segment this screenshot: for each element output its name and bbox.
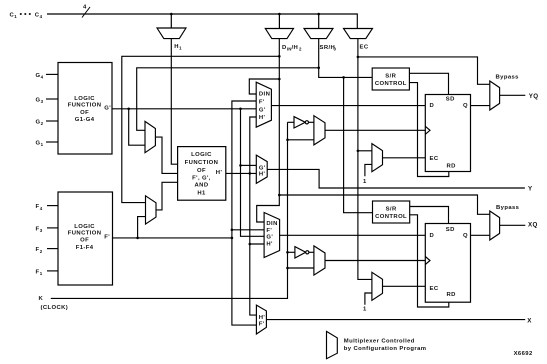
- svg-text:X6692: X6692: [514, 351, 533, 357]
- label H1: [174, 44, 182, 51]
- mux clock FF-X: [314, 246, 325, 275]
- wire K clock vertical and branches: [51, 122, 288, 298]
- svg-text:FUNCTION: FUNCTION: [185, 160, 219, 166]
- mux EC (input select): [344, 29, 373, 39]
- logic function box F' G' H1: [178, 147, 226, 201]
- wire G' output line to mux column: [112, 108, 256, 110]
- clock chevron FF-X: [425, 257, 430, 265]
- wire H2 branch (DIN/H2 line to upper H-input mux): [122, 56, 279, 202]
- wire Y output with jog: [267, 169, 525, 188]
- mux2 D-input select DIN F' G' H': [264, 213, 280, 258]
- svg-text:H': H': [259, 171, 266, 177]
- wire RD-2 from S/R control to FF-X: [410, 215, 449, 307]
- svg-text:H': H': [266, 241, 273, 247]
- wire F' output line to F bus: [113, 237, 232, 239]
- wire bypass-2 (DIN tap to bypass mux XQ): [279, 195, 490, 214]
- mux-X output select H'/F': [256, 305, 266, 334]
- inverter clock FF-Y: [294, 117, 314, 128]
- wire F' branch to mux-X: [232, 238, 257, 325]
- svg-text:K: K: [39, 296, 44, 302]
- svg-text:3: 3: [41, 99, 44, 104]
- svg-text:EC: EC: [430, 156, 439, 162]
- junction dot SR branch: [342, 76, 345, 79]
- pin G3: [36, 97, 59, 104]
- svg-text:1: 1: [40, 271, 43, 276]
- wire EC vertical: [358, 39, 372, 280]
- label DIN/H2: [282, 45, 302, 52]
- svg-text:RD: RD: [447, 292, 456, 298]
- svg-text:LOGIC: LOGIC: [74, 224, 95, 230]
- svg-text:Q: Q: [463, 233, 468, 239]
- svg-text:G': G': [259, 108, 266, 114]
- svg-text:G': G': [104, 105, 111, 111]
- wire H' branch to mux-X: [250, 244, 257, 315]
- wire F' branch up to lower H-input mux: [138, 217, 146, 238]
- wire SD-2 from S/R control to FF-X: [410, 207, 449, 224]
- svg-text:2: 2: [41, 121, 44, 126]
- wire upper H-mux output into H box: [155, 137, 177, 173]
- svg-text:G': G': [259, 165, 266, 171]
- wire F' bus vertical: [232, 101, 256, 238]
- svg-text:SD: SD: [446, 97, 455, 103]
- svg-text:D: D: [430, 103, 435, 109]
- wire constant 1 stub EC-2: [365, 293, 372, 305]
- wire clock mux-1 to FF-Y: [325, 129, 425, 131]
- wire C1-C4 top bus: [47, 14, 357, 29]
- svg-text:Bypass: Bypass: [496, 74, 520, 80]
- svg-text:AND: AND: [195, 182, 209, 188]
- svg-text:OF: OF: [80, 238, 89, 244]
- pin F4: [36, 204, 59, 211]
- wire constant 1 stub EC-1: [365, 164, 372, 176]
- svg-text:CONTROL: CONTROL: [375, 81, 407, 87]
- wire EC mux-1 output to FF-Y: [383, 157, 426, 159]
- mux H1 (input select): [157, 28, 186, 39]
- mux SR/H0 (input select): [304, 29, 333, 39]
- wire lower H-mux output into H box: [156, 182, 178, 210]
- node H1 tap: [170, 14, 172, 28]
- mux upper H-input (G'/H select): [145, 121, 155, 152]
- svg-text:F': F': [266, 228, 272, 234]
- wire YQ output: [500, 94, 526, 96]
- pin G4: [36, 73, 59, 80]
- wire EC to EC mux-1: [358, 150, 372, 152]
- junction dot bypass-2 tap: [278, 194, 281, 197]
- mux1 D-input select DIN F' G' H': [256, 82, 271, 127]
- wire X output: [266, 319, 525, 321]
- wire H1 mux output down into H box: [171, 39, 177, 165]
- svg-text:4: 4: [40, 14, 43, 19]
- svg-text:S/R: S/R: [386, 206, 397, 212]
- wire D line mux2 to FF-X: [280, 234, 426, 236]
- wire RD-1 from S/R control to FF-Y: [409, 83, 448, 177]
- wire XQ output: [500, 224, 526, 226]
- mux clock FF-Y: [314, 116, 325, 145]
- bus width slash 4: [82, 7, 90, 18]
- svg-text:(CLOCK): (CLOCK): [41, 305, 69, 311]
- svg-text:1: 1: [14, 14, 17, 19]
- svg-text:F', G',: F', G',: [192, 176, 211, 182]
- pin K (CLOCK): [39, 296, 69, 311]
- junction dots mux column: [231, 78, 281, 246]
- inverter clock FF-X: [295, 247, 314, 258]
- wire K to inverter-2: [288, 251, 295, 253]
- svg-text:Y: Y: [528, 185, 533, 192]
- mux EC-2 (1/EC select): [372, 272, 383, 300]
- svg-text:F1-F4: F1-F4: [76, 245, 94, 251]
- svg-text:Multiplexer Controlled: Multiplexer Controlled: [344, 339, 415, 345]
- svg-text:1: 1: [363, 179, 367, 185]
- mux lower H-input (F'/H select): [146, 196, 157, 224]
- junction dots on C bus: [170, 13, 320, 16]
- svg-text:OF: OF: [80, 110, 89, 116]
- clock chevron FF-Y: [425, 126, 430, 134]
- wire bypass-1 (from EC column to bypass mux YQ): [358, 57, 490, 84]
- wire EC mux-2 output to FF-X: [383, 285, 426, 287]
- node SR/H0 tap: [318, 14, 320, 29]
- junction dot bypass-1 tap: [357, 56, 360, 59]
- mux DIN/H2 (input select): [265, 29, 293, 39]
- legend mux symbol: [327, 331, 338, 358]
- svg-text:1: 1: [179, 46, 182, 51]
- wire D line mux1 to FF-Y: [271, 105, 425, 107]
- box S/R control 1: [372, 68, 409, 90]
- mux bypass XQ: [490, 211, 500, 240]
- pin F2: [36, 247, 59, 254]
- svg-text:F': F': [104, 235, 110, 241]
- svg-text:XQ: XQ: [528, 222, 538, 229]
- box S/R control 2: [373, 201, 410, 223]
- svg-text:SD: SD: [446, 227, 455, 233]
- svg-text:1: 1: [41, 142, 44, 147]
- wire G' branch to mux-Y: [241, 164, 257, 166]
- wire H' bus vertical: [250, 117, 256, 173]
- svg-text:H': H': [259, 115, 266, 121]
- wire H' branch to mux2: [250, 173, 264, 244]
- svg-text:G': G': [266, 234, 273, 240]
- svg-text:RD: RD: [447, 163, 456, 169]
- pin G2: [36, 119, 59, 126]
- wire SD-1 from S/R control to FF-Y: [409, 73, 448, 94]
- pin G1: [36, 140, 59, 147]
- svg-text:OF: OF: [197, 168, 206, 174]
- wire K direct to clock mux-1: [288, 139, 314, 141]
- svg-text:F': F': [259, 321, 265, 327]
- pin F1: [36, 269, 59, 276]
- svg-text:DIN: DIN: [259, 91, 270, 97]
- wire DIN branch to mux1: [249, 79, 279, 94]
- svg-text:H': H': [259, 315, 266, 321]
- label C1...C4: [10, 12, 43, 19]
- logic function box G1-G4: [58, 63, 112, 155]
- svg-text:EC: EC: [430, 286, 439, 292]
- svg-text:0: 0: [334, 47, 337, 52]
- svg-text:4: 4: [40, 206, 43, 211]
- logic function box F1-F4: [58, 192, 113, 285]
- svg-text:4: 4: [41, 75, 44, 80]
- svg-text:3: 3: [40, 228, 43, 233]
- svg-text:YQ: YQ: [529, 93, 539, 100]
- svg-text:S/R: S/R: [385, 73, 396, 79]
- svg-text:EC: EC: [360, 45, 369, 51]
- wire K to inverter-1: [288, 121, 295, 123]
- svg-text:F': F': [259, 99, 265, 105]
- flip-flop FF-Y: [425, 95, 470, 172]
- wire Q-1 to bypass mux: [471, 105, 490, 107]
- wire H0 branch (SR/H0 line to upper H-input mux): [137, 68, 319, 131]
- svg-text:D: D: [430, 233, 435, 239]
- svg-text:G1-G4: G1-G4: [75, 117, 95, 123]
- svg-text:4: 4: [83, 5, 87, 11]
- svg-text:D: D: [282, 45, 287, 51]
- mux-Y output select G'/H': [256, 155, 267, 183]
- svg-text:Bypass: Bypass: [496, 205, 520, 211]
- label SR/H0: [320, 45, 337, 52]
- wire SR branch down to S/R control 2: [344, 77, 373, 212]
- svg-text:by Configuration Program: by Configuration Program: [344, 346, 427, 352]
- svg-text:LOGIC: LOGIC: [74, 96, 95, 102]
- junction dots K net: [286, 139, 289, 270]
- svg-text:Q: Q: [463, 103, 468, 109]
- mux EC-1 (1/EC select): [372, 144, 383, 172]
- svg-text:CONTROL: CONTROL: [375, 214, 407, 220]
- legend text: [344, 339, 427, 352]
- svg-text:/H: /H: [292, 45, 299, 51]
- mux bypass YQ: [490, 81, 500, 110]
- junction dot EC: [357, 150, 360, 153]
- wire SR/H0 vertical to S/R control 1: [319, 39, 373, 78]
- svg-text:FUNCTION: FUNCTION: [68, 231, 102, 237]
- svg-text:X: X: [527, 317, 532, 324]
- svg-text:FUNCTION: FUNCTION: [68, 103, 102, 109]
- wire G' branch down to upper H-input mux: [129, 109, 145, 145]
- wire H' output line to mux column: [226, 172, 256, 174]
- wire F' branch to mux2: [232, 229, 264, 231]
- wire clock mux-2 to FF-X: [325, 260, 425, 262]
- svg-text:1: 1: [363, 306, 367, 312]
- svg-text:DIN: DIN: [266, 221, 277, 227]
- junction dots left section: [127, 55, 320, 239]
- wire G' bus vertical: [241, 109, 265, 237]
- node DIN/H2 tap: [278, 14, 280, 29]
- wire DIN/H2 vertical: [257, 39, 280, 222]
- wire Q-2 to bypass mux: [471, 234, 490, 236]
- wire K direct to clock mux-2: [288, 267, 314, 269]
- svg-text:H1: H1: [197, 191, 206, 197]
- svg-text:2: 2: [299, 47, 302, 52]
- svg-text:LOGIC: LOGIC: [191, 152, 212, 158]
- pin F3: [36, 226, 59, 233]
- svg-text:H': H': [216, 170, 223, 176]
- flip-flop FF-X: [425, 224, 470, 303]
- svg-text:2: 2: [40, 249, 43, 254]
